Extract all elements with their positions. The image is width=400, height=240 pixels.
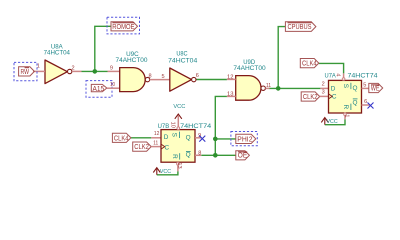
selection box around ROMOE [107,17,140,34]
wire pin 10 stub A15 to U9C [107,87,120,89]
wire ROMOE net vertical drop [95,26,111,71]
svg-text:R: R [342,104,349,109]
global label RW [19,67,35,76]
svg-text:10: 10 [110,82,115,88]
svg-text:A15: A15 [93,84,105,93]
wire junction to PHI2 label [215,138,236,140]
svg-text:U7A: U7A [325,72,337,79]
nand gate U9D [233,59,266,100]
svg-text:C: C [332,93,337,100]
svg-text:2: 2 [72,66,75,72]
power symbol VCC at U7A bottom [321,118,337,126]
global label PHI2 [236,134,256,143]
wire U7B pin 13 to VCC symbol [157,171,178,175]
wire pin 6 stub U7A Qbar [362,104,370,106]
svg-text:S: S [171,133,178,137]
wire pin 3 stub CLK2 to U7A [320,95,329,97]
svg-text:5: 5 [363,82,366,88]
svg-text:9: 9 [110,65,113,71]
wire CLK4 to U7A pin 4 [319,63,344,73]
svg-text:CLK4: CLK4 [114,133,129,142]
svg-text:CPUBUS: CPUBUS [288,22,312,31]
wire pin 13 stub [227,95,236,97]
svg-text:ROMOE: ROMOE [112,22,134,31]
wire U8C output to U9D pin 12 [196,79,227,81]
wire U7B pin 8 to OE label [201,154,236,156]
wire pin 8 stub U7B Qbar [195,154,201,156]
svg-text:VCC: VCC [160,169,171,175]
selection box around PHI2 [231,132,257,146]
global label CLK2 at U7A [301,92,320,101]
wire U9D output to U7A pin 2 [269,87,320,89]
svg-text:6: 6 [196,73,199,79]
svg-text:VCC: VCC [327,119,338,125]
wire pin 9 stub [108,70,120,72]
svg-text:3: 3 [322,90,325,96]
inverter U8C [168,50,197,91]
wire pin 2 stub U8A output [72,70,82,72]
svg-text:12: 12 [154,131,160,137]
global label WE [369,83,383,92]
svg-text:C: C [165,144,170,151]
wire pin 2 stub [320,87,328,89]
svg-text:D: D [164,134,169,141]
pin 1 stub at U7A bottom [343,113,349,119]
no-connect X at U7A pin 6 [368,103,374,109]
svg-text:Q: Q [186,135,191,142]
global label CLK4 at U7B [112,133,130,142]
flip-flop U7B 74HCT74 [158,123,212,162]
svg-text:8: 8 [149,74,152,80]
selection box around RW [14,62,37,80]
power symbol VCC at U7B bottom [153,168,171,175]
svg-text:74HCT74: 74HCT74 [348,73,378,80]
svg-text:74HCT04: 74HCT04 [168,58,197,65]
svg-text:10: 10 [170,122,176,128]
power symbol VCC at U7B top [173,104,185,119]
wire U9D pin 13 down to PHI2/OE rows [215,96,227,155]
node junction PHI2 row [213,137,218,142]
svg-text:74AHCT00: 74AHCT00 [233,65,266,72]
svg-text:VCC: VCC [173,104,185,110]
svg-text:6: 6 [364,99,367,105]
global label ROMOE [111,22,138,31]
wire pin 5 stub U7A Q to WE [362,87,369,89]
pin 10 stub at U7B top with inverted bubble [170,116,180,130]
svg-text:PHI2: PHI2 [237,134,252,143]
node junction OE row [213,153,218,158]
svg-text:Q: Q [186,152,191,159]
svg-text:11: 11 [266,83,271,89]
wire pin 8 stub U9C output to U8C pin 5 [150,79,170,81]
node junction at ROMOE tap [93,69,98,74]
svg-text:13: 13 [176,162,182,168]
svg-text:CLK4: CLK4 [302,59,317,68]
pin 13 stub at U7B bottom [176,162,182,171]
svg-text:4: 4 [335,73,341,76]
svg-text:1: 1 [343,114,349,117]
svg-text:74AHCT00: 74AHCT00 [116,57,148,64]
wire CPUBUS net up from junction [278,27,285,89]
svg-text:RW: RW [21,67,30,76]
svg-text:U7B: U7B [158,123,170,130]
global label CLK2 at U7B [133,142,152,151]
wire U8A output to U9C pin 9 [82,70,108,72]
svg-text:CLK2: CLK2 [303,92,318,101]
svg-text:11: 11 [153,140,158,146]
svg-text:R: R [171,154,178,159]
svg-text:Q: Q [353,85,358,92]
wire pin 1 stub RW to U8A [33,70,45,72]
selection box around A15 [86,81,112,98]
inverter U8A [44,43,72,83]
flip-flop U7A 74HCT74 [325,72,378,113]
global label OE [236,151,250,160]
svg-text:2: 2 [322,82,325,88]
wire pin 12 stub [227,78,236,80]
no-connect X at U7B pin 9 [199,136,205,142]
svg-text:CLK2: CLK2 [134,142,149,151]
svg-text:S: S [342,84,349,88]
svg-text:74HCT74: 74HCT74 [180,123,211,130]
svg-text:U8C: U8C [176,50,187,57]
svg-text:D: D [331,86,336,93]
nand gate U9C [116,51,150,92]
global label CPUBUS [285,22,316,32]
svg-text:Q: Q [353,99,358,106]
svg-text:5: 5 [162,74,165,80]
wire pin 9 stub U7B Q [195,137,201,139]
node junction CPUBUS tap [276,86,281,91]
svg-text:8: 8 [198,151,201,157]
wire pin 12 stub [151,137,161,139]
svg-text:12: 12 [227,74,234,80]
global label CLK4 at U7A [300,59,319,68]
pin 4 stub at U7A top [335,73,345,80]
wire pin 11 stub U9D output [265,87,269,89]
wire CLK4 to U7B pin 12 [131,137,151,139]
wire U7A pin 1 to VCC symbol [325,119,345,124]
wire pin 11 stub [151,146,161,148]
global label A15 [91,84,107,93]
svg-text:13: 13 [227,91,234,97]
svg-text:74HCT04: 74HCT04 [44,50,71,57]
